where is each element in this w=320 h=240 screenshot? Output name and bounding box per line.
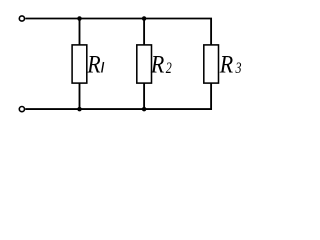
wire top rail with corner down to R3 bbox=[25, 19, 211, 45]
svg-text:R: R bbox=[219, 51, 233, 79]
resistor R2 bbox=[137, 45, 152, 83]
svg-text:R: R bbox=[150, 51, 164, 79]
svg-text:R: R bbox=[86, 51, 100, 79]
node junction top R1 bbox=[77, 16, 82, 21]
wire branch R2 bottom bbox=[143, 83, 145, 109]
node junction top R2 bbox=[142, 16, 147, 21]
svg-text:2: 2 bbox=[166, 59, 172, 77]
resistor R3 bbox=[204, 45, 219, 83]
wire branch R2 top bbox=[143, 19, 145, 45]
terminal top-left bbox=[19, 16, 24, 21]
wire branch R1 top bbox=[79, 19, 81, 45]
node junction bottom R2 bbox=[142, 107, 147, 112]
wire bottom rail with corner up to R3 bbox=[25, 83, 211, 109]
label R1 bbox=[86, 51, 103, 79]
terminal bottom-left bbox=[19, 107, 24, 112]
label R3 bbox=[219, 51, 242, 79]
label R2 bbox=[150, 51, 172, 79]
resistor R1 bbox=[72, 45, 87, 83]
wire branch R1 bottom bbox=[79, 83, 81, 109]
svg-text:3: 3 bbox=[235, 59, 242, 77]
node junction bottom R1 bbox=[77, 107, 82, 112]
